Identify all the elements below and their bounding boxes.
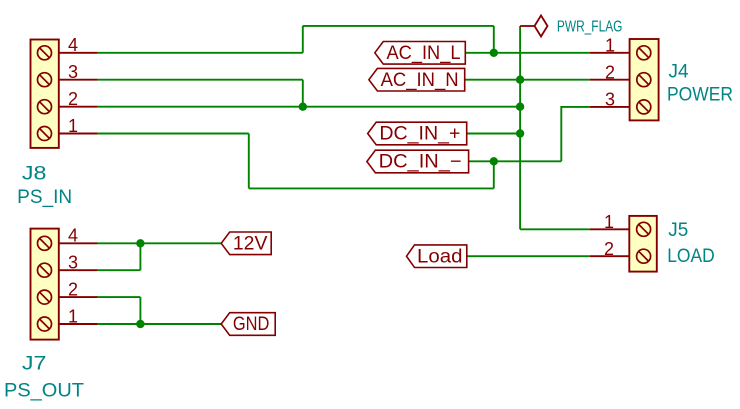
junction J7 12V [136, 239, 144, 247]
svg-text:2: 2 [68, 89, 78, 109]
svg-text:J7: J7 [22, 354, 47, 375]
svg-text:2: 2 [68, 280, 78, 300]
connector J5 body [629, 216, 657, 272]
svg-text:2: 2 [605, 63, 615, 83]
J4 pin 1 [590, 36, 630, 56]
global label 12V [221, 232, 271, 255]
wire J5.1 row [520, 228, 590, 230]
wire J7.4 row to 12V [98, 242, 221, 244]
J7 pin 4 [59, 226, 98, 246]
svg-text:1: 1 [604, 212, 614, 232]
svg-text:AC_IN_N: AC_IN_N [381, 70, 459, 91]
svg-text:POWER: POWER [667, 85, 733, 106]
junction at DC_IN_- row [490, 157, 498, 165]
reference J5 [668, 220, 688, 241]
svg-text:2: 2 [604, 239, 614, 259]
svg-text:J5: J5 [668, 220, 688, 241]
wire Load row to J5.2 [468, 255, 590, 257]
svg-text:3: 3 [68, 253, 78, 273]
J8 pin 1 [59, 116, 98, 136]
svg-text:LOAD: LOAD [667, 246, 715, 267]
wire J7.2 drop [139, 297, 141, 324]
global label GND [221, 313, 275, 336]
J4 pin 3 [590, 90, 630, 110]
wire J8.1 drop [248, 134, 250, 189]
reference J8 [22, 164, 47, 185]
wire J7.3 riser [139, 243, 141, 270]
wire J8.2 row [98, 106, 520, 108]
reference J7 [22, 354, 47, 375]
wire J8.1 row [98, 133, 249, 135]
wire J8.3 drop to J8.2 row [302, 80, 304, 107]
J4 pin 2 [590, 63, 630, 83]
value PS_IN [17, 187, 72, 208]
wire J8.4 row [98, 52, 303, 54]
junction J8.3/J8.2 [299, 103, 307, 111]
junction bus at J8.2 row [516, 103, 524, 111]
power flag PWR_FLAG [520, 16, 547, 37]
svg-text:DC_IN_+: DC_IN_+ [379, 124, 460, 145]
wire AC_IN_L row to J4 pin1 [465, 52, 589, 54]
J8 pin 2 [59, 89, 98, 109]
svg-text:GND: GND [233, 314, 270, 335]
wire J8.3 row [98, 79, 303, 81]
svg-text:1: 1 [605, 36, 615, 56]
svg-text:J8: J8 [22, 164, 47, 185]
wire DC_IN_- row [469, 160, 562, 162]
svg-text:1: 1 [68, 306, 78, 326]
wire DC_IN_+ row [467, 133, 520, 135]
svg-text:Load: Load [417, 247, 463, 268]
svg-text:AC_IN_L: AC_IN_L [387, 43, 461, 64]
wire drop to AC_IN_L row [493, 26, 495, 53]
svg-text:DC_IN_−: DC_IN_− [379, 152, 462, 173]
wire AC_IN_N row to J4 pin2 [465, 79, 590, 81]
junction at AC_IN_L row [490, 49, 498, 57]
svg-text:PS_IN: PS_IN [17, 187, 72, 208]
junction bus at DC_IN_+ row [516, 129, 524, 137]
svg-text:PWR_FLAG: PWR_FLAG [557, 18, 623, 35]
global label Load [407, 245, 467, 268]
wire up to DC_IN_- row [493, 161, 495, 188]
svg-text:J4: J4 [669, 62, 689, 83]
svg-text:PS_OUT: PS_OUT [4, 381, 84, 402]
global label AC_IN_L [375, 42, 466, 65]
J8 pin 4 [59, 35, 98, 55]
wire riser J8.4 up [302, 26, 304, 53]
wire top horizontal [303, 25, 494, 27]
reference J4 [669, 62, 689, 83]
value LOAD [667, 246, 715, 267]
wire J7.2 row [98, 296, 141, 298]
J7 pin 1 [59, 306, 98, 326]
connector J8 body [31, 40, 59, 148]
junction J7 GND [136, 320, 144, 328]
value POWER [667, 85, 733, 106]
junction at AC_IN_N row [516, 76, 524, 84]
wire J4.3 vertical [561, 107, 589, 161]
wire bottom horizontal [249, 187, 494, 189]
connector J4 body [630, 39, 659, 120]
svg-text:4: 4 [68, 35, 78, 55]
J7 pin 3 [59, 253, 98, 273]
svg-text:12V: 12V [233, 234, 268, 255]
global label DC_IN_+ [368, 122, 467, 145]
value PS_OUT [4, 381, 84, 402]
svg-text:4: 4 [68, 226, 78, 246]
wire J7.1 row to GND [98, 323, 221, 325]
J5 pin 2 [590, 239, 630, 259]
J7 pin 2 [59, 280, 98, 300]
J5 pin 1 [590, 212, 630, 232]
J8 pin 3 [59, 62, 98, 82]
svg-text:3: 3 [605, 90, 615, 110]
text PWR_FLAG [557, 18, 623, 35]
connector J7 body [31, 229, 59, 340]
global label DC_IN_- [367, 150, 469, 173]
wire J7.3 row [98, 269, 141, 271]
global label AC_IN_N [369, 68, 465, 91]
wire vertical bus PWR_FLAG to J5.1 [519, 26, 521, 229]
svg-text:1: 1 [68, 116, 78, 136]
svg-text:3: 3 [68, 62, 78, 82]
